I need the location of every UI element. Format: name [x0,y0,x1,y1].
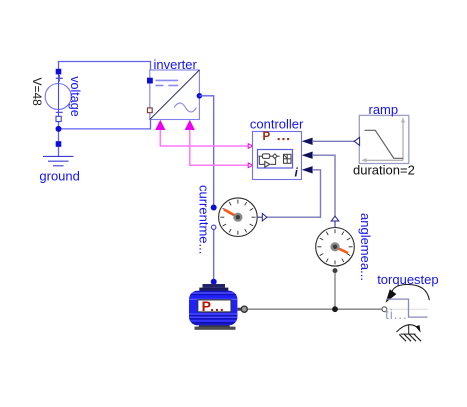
motor base plate [195,327,236,330]
ramp curve [365,130,404,158]
inverter U1 [147,57,202,120]
time axis (light gray) [387,308,428,310]
gate2 input arrow (filled magenta) [185,120,195,130]
sensor pin n (hollow circle) [212,225,216,229]
svg-text:voltage: voltage [68,76,82,117]
ramp y-axis [402,121,404,160]
controller input arrow 1 (filled navy) [302,138,313,145]
inverter diagonal [150,70,200,120]
inverter output junction dot [197,93,203,99]
DC symbol dashes [155,85,163,87]
voltage body circle [45,84,71,110]
signal wire ramp.y to controller input1 [313,140,355,142]
motor foot [198,320,231,328]
shaft wire angle sensor to shaft line [334,273,336,309]
svg-text:P...: P... [202,298,225,314]
torquestep T1 [377,272,438,322]
sensor flange pin (dark dot) [333,268,338,273]
support arc [397,325,419,332]
junction dot at ground node [56,126,62,132]
angle sensor gauge A2 [316,213,373,281]
svg-text:inverter: inverter [154,57,198,72]
inner icon box [258,150,293,169]
motor nameplate [198,300,231,312]
fixed support F1 [397,324,422,341]
voltage internal line [58,74,60,117]
shaft line motor to torquestep [248,308,382,310]
svg-text:ground: ground [39,168,79,183]
svg-text:ramp: ramp [369,102,399,117]
wire voltage.n down to ground node [58,117,60,156]
ramp output connector (open triangle pointing left) [354,137,359,145]
gauge needle (orange) [335,247,348,253]
motor pin junction dot [211,279,217,285]
inverter pin_n (hollow square) [147,107,153,113]
inner diagram: quadrant square [284,154,292,163]
motor terminal box top [203,284,226,288]
plus sign [56,75,63,82]
flange connector (open circle) [382,307,387,312]
gauge hub [233,213,242,222]
ground G1 [39,141,79,183]
support base line [401,333,416,335]
controller output connector 1 (open magenta triangle) [248,144,253,149]
wire ground node to inverter pin_n [59,112,151,129]
inverter body [150,70,200,120]
inner diagram: triangle amplifier [265,161,270,167]
wire current sensor n to motor pin [213,230,215,282]
torque arrowhead (filled black) [386,289,397,303]
sensor output connector (open triangle) [262,213,267,221]
controller input arrow 3 (filled navy) [302,166,313,173]
AC sine symbol [174,103,197,112]
motor shaft ring [241,306,247,312]
inner diagram: feedback up line [270,159,275,165]
boolean wire controller out2 to inverter gate2 [185,120,249,166]
support stem [408,324,410,334]
controller C1 [250,116,313,179]
signal wire angle sensor y to controller input2 [313,155,335,216]
sensor output connector (open triangle up) [331,216,339,221]
inverter pin_p (filled square) [147,78,153,84]
svg-text:P: P [263,131,271,143]
ramp block R1 [353,102,415,177]
inner diagram: block rect [262,154,269,159]
motor shaft stub [237,308,241,311]
svg-text:controller: controller [250,116,304,131]
sensor output stub up [334,221,336,228]
wire inverter output to current sensor p [199,96,213,205]
DC symbol solid line [155,79,178,81]
svg-text:duration=2: duration=2 [353,162,415,177]
gauge hub [330,242,339,251]
shaft junction dot [332,306,338,312]
inner diagram: diamond output line [277,155,280,157]
motor M1 [189,279,247,330]
ground lines [43,155,74,157]
minus sign [56,111,63,113]
pin n (hollow square) [56,116,61,121]
gauge ticks [317,229,352,264]
inner diagram: diamond [273,154,278,159]
support arc arrowhead [415,325,420,333]
gauge rim [316,228,355,267]
controller input arrow 2 (filled navy) [302,152,313,159]
signal wire current sensor y to controller input3 [267,170,321,217]
gauge ticks [220,200,255,235]
boolean wire controller out1 to inverter gate1 [155,120,248,146]
ramp x-axis (mirrored, arrow left) [365,159,403,161]
gauge rim [219,198,258,237]
support hatches [399,334,421,341]
inner diagram: feedback down line [259,156,264,164]
svg-text:V=48: V=48 [30,78,44,107]
ramp body [359,115,409,163]
torque arc (black) [392,284,429,300]
wire voltage.p to inverter pin_p [59,62,151,80]
svg-text:currentme...: currentme... [197,185,212,254]
svg-text:anglemea...: anglemea... [358,213,373,281]
step signal (periwinkle) [387,299,428,317]
controller body [253,132,302,180]
controller output connector 2 (open magenta triangle) [248,163,253,168]
motor terminal box bottom [199,288,228,292]
gate1 input arrow (filled magenta) [155,120,165,130]
current sensor gauge A1 [197,185,267,254]
pin p (filled square) [56,69,62,75]
voltage source V1 [30,69,82,122]
inner diagram: line to diamond [270,155,273,157]
sensor pin p (filled blue dot) [211,205,217,211]
ground pin (filled square) [56,141,62,147]
svg-text:ti...: ti... [385,306,408,322]
sensor output stub [257,216,262,218]
inner diagram: input line [259,155,263,157]
gauge needle (orange) [224,209,238,217]
